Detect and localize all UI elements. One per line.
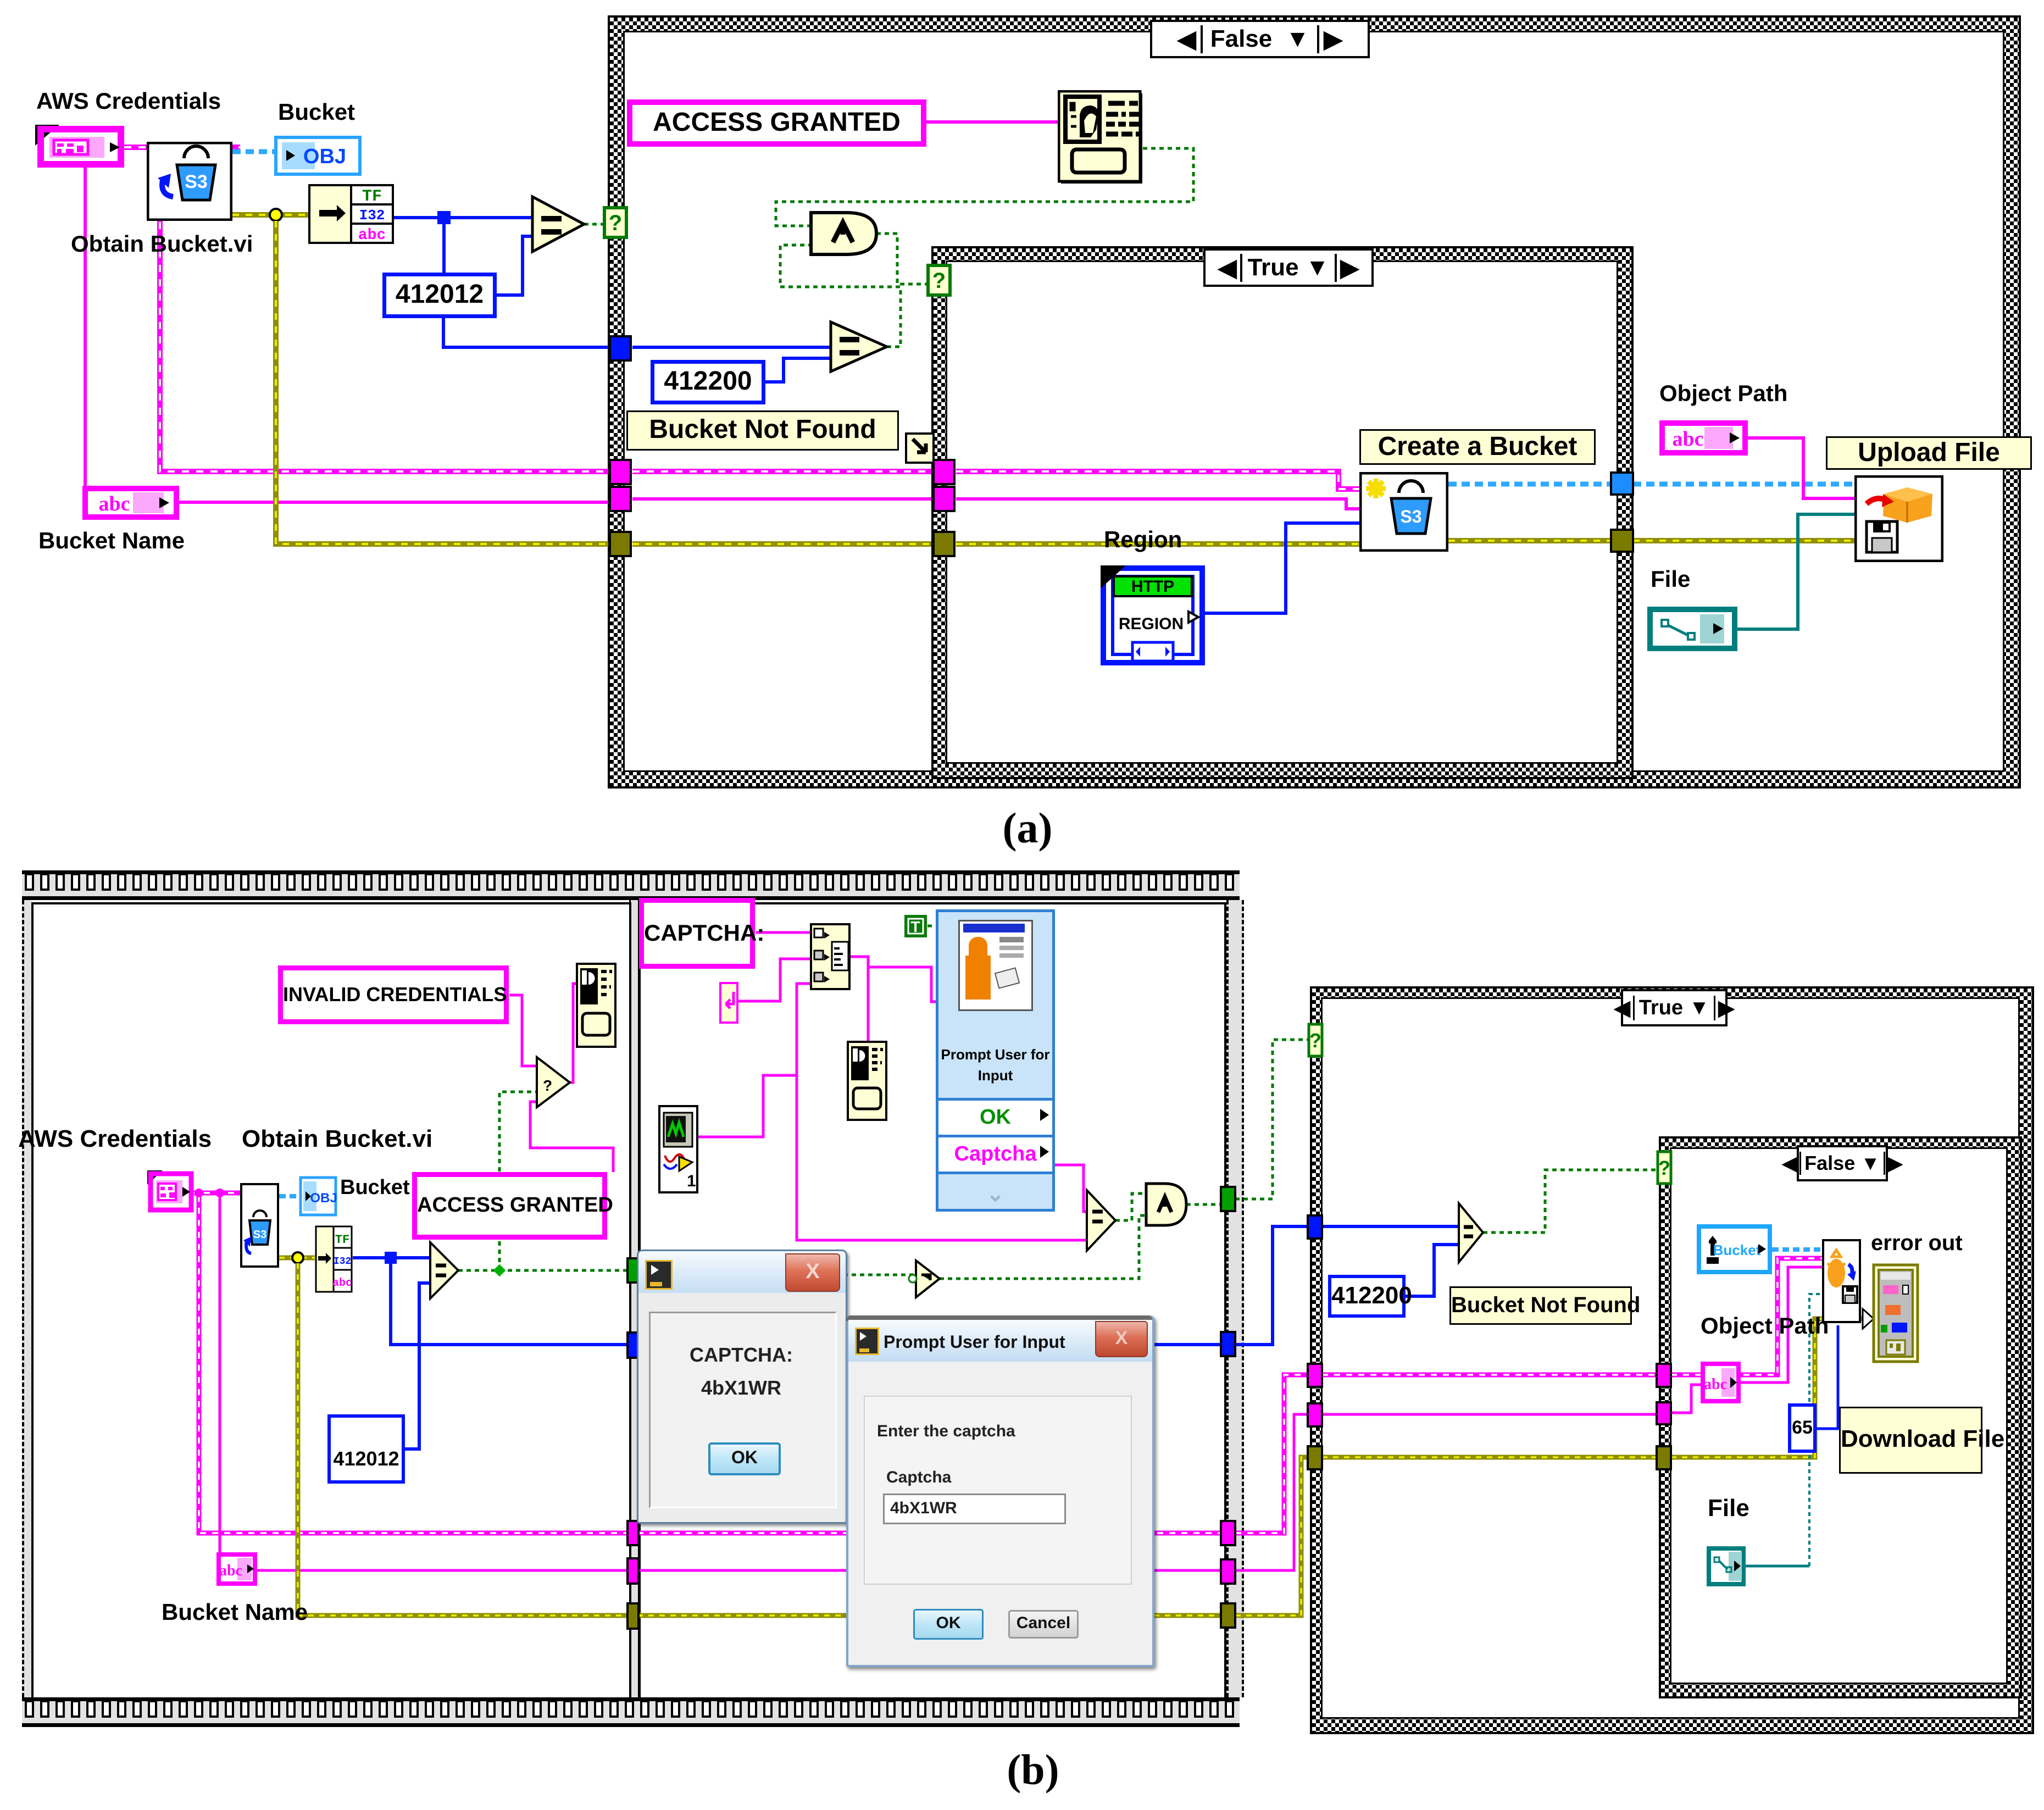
svg-text:abc: abc [1704, 1376, 1727, 1393]
wire pink captcha row out (b) [1055, 1165, 1087, 1212]
wire pink zigzag bucket name (a) [84, 166, 87, 486]
wire olive error (a) [232, 212, 308, 218]
svg-text:?: ? [543, 1077, 552, 1094]
flat sequence right edge [1226, 900, 1244, 1697]
node One Button Dialog icon (a) [1058, 90, 1143, 184]
constant 412200 (b True) [1328, 1275, 1406, 1318]
case structure False frame inner (b) [1659, 1136, 2022, 1698]
subVI Create Bucket icon (a) [1359, 472, 1448, 552]
wire teal File (b) [1746, 1565, 1809, 1568]
wire pink dashed AWS credentials (a) [85, 122, 1854, 629]
wire green AND out (b) [1186, 1203, 1222, 1206]
label Bucket Name (b) [162, 1599, 308, 1625]
wire blue I32 (a) [394, 216, 532, 219]
wire green tunnel to NOT (b) [637, 1274, 916, 1276]
svg-text:TF: TF [335, 1233, 349, 1247]
wire pink dashed inner False (b) [1671, 1258, 1822, 1375]
wire pink dashed inside True (b) [1322, 1373, 1658, 1378]
wire cyan refnum (b pane1) [279, 1194, 299, 1198]
express VI Prompt User for Input (b) [936, 909, 1055, 1212]
wire green film to True case (b) [1235, 1040, 1310, 1199]
control Region ring (a) [1101, 565, 1205, 665]
wire olive (b pane1) [279, 1256, 315, 1261]
selector label True (a inner) [1203, 248, 1374, 287]
label Bucket Name (a) [38, 528, 185, 554]
selector True (b) [1621, 989, 1728, 1026]
wire olive film to True (b) [1235, 1457, 1310, 1615]
wire blue inside True (b) [1322, 1225, 1459, 1228]
node equals compare (b True) [1459, 1203, 1483, 1262]
subVI Upload File icon (a) [1854, 475, 1943, 562]
label Object Path (a) [1659, 380, 1787, 407]
wire cyan Bucket to Download (b) [1772, 1247, 1822, 1252]
tunnel olive (a) [610, 532, 631, 556]
constant ACCESS GRANTED (b) [412, 1172, 607, 1240]
node equals compare #1 (a) [532, 197, 584, 252]
constant 412200 (a) [651, 360, 765, 404]
label Obtain Bucket.vi (a) [71, 231, 253, 257]
wire pink zigzag pane2 (b) [637, 1569, 1222, 1572]
wire olive through frames (a) [632, 541, 1359, 547]
wire pink zigzag film to True (b) [1235, 1414, 1310, 1570]
label AWS Credentials (a) [36, 88, 221, 114]
wire pink CAPTCHA to concat (b) [756, 931, 810, 934]
indicator Bucket OBJ refnum (a) [274, 136, 362, 176]
node One Button Dialog icon (b pane1) [576, 963, 616, 1048]
wire blue 65 (b) [1813, 1325, 1838, 1429]
wire green AND out to inner ? (a) [876, 234, 929, 284]
svg-text:I32: I32 [334, 1256, 351, 1267]
node captcha image generator (b) [658, 1105, 698, 1193]
wire olive inside True (b) [1322, 1455, 1658, 1460]
node equals compare #2 412200 (a) [831, 322, 887, 371]
constant Upload File (a) [1826, 436, 2032, 470]
wire pink zigzag inner False (b) [1671, 1385, 1701, 1413]
constant 412012 (a) [382, 273, 497, 318]
flat sequence frame divider [629, 900, 640, 1697]
dialog window CAPTCHA (b) [637, 1250, 847, 1524]
wire pink enter const to concat (b) [738, 959, 810, 1001]
cursor glyph (a) [905, 432, 935, 464]
node concatenate strings (b) [810, 923, 851, 990]
flat sequence structure (b): top film band [22, 870, 1240, 900]
control Bucket refnum (b inner False) [1697, 1224, 1772, 1274]
label Object Path (b) [1701, 1313, 1829, 1339]
wire pink zigzag bucket name (b) [219, 1196, 221, 1552]
node AND gate (b pane2) [1146, 1184, 1186, 1225]
wire pink zigzag inside True (b) [1322, 1413, 1658, 1416]
wire pink concat out (b) [851, 957, 868, 1041]
control AWS credentials cluster (b) [146, 1169, 196, 1214]
constant Create a Bucket (a) [1359, 429, 1596, 465]
control Bucket Name abc (a) [82, 486, 179, 520]
wire green compare (b pane1) [458, 1269, 628, 1272]
constant Bucket Not Found (b True) [1449, 1286, 1632, 1325]
tunnel pink dashed (a) [610, 460, 631, 484]
node equals compare captcha (b pane2) [1087, 1190, 1115, 1251]
tunnels pink pink olive inner-left (a) [934, 460, 954, 484]
selector False (b inner) [1797, 1145, 1888, 1181]
constant 412012 (b) [327, 1414, 405, 1484]
indicator Bucket OBJ (b) [299, 1176, 337, 1217]
wire pink zigzag ACCESS GRANTED (a) [926, 120, 1058, 124]
wire pink dashed pane2 (b) [637, 1531, 1222, 1536]
sequence pane 2 border [638, 902, 1226, 1700]
wire cyan create->upload (a) [1448, 482, 1854, 487]
wire olive inner False (b) [1671, 1319, 1822, 1457]
caption (a) [984, 803, 1071, 853]
wire pink M icon to concat and compare (b) [698, 984, 810, 1137]
node One Button Dialog icon (b pane2) [847, 1041, 887, 1121]
wire green NOT to AND (b) [940, 1215, 1146, 1279]
constant 65 (b) [1788, 1403, 1817, 1453]
wire blue film to True case (b) [1235, 1226, 1310, 1345]
control File path (b) [1707, 1546, 1746, 1586]
wire pink zigzag object path (a) [1748, 438, 1854, 498]
wire blue pane2 (b) [637, 1343, 1222, 1346]
wire pink dashed film to True (b) [1235, 1375, 1310, 1533]
wire teal file (a) [1737, 514, 1854, 629]
label Region (a) [1104, 526, 1182, 553]
wire pink INVALID to select (b) [510, 995, 537, 1066]
label File (a) [1651, 566, 1690, 592]
node unbundle TF I32 abc (a) [308, 184, 394, 244]
indicator error out cluster (b) [1872, 1263, 1919, 1363]
wire olive pane2 (b) [637, 1613, 1224, 1618]
wire green compare out (a) [584, 223, 604, 226]
wire pink select out to dialog (b) [570, 984, 576, 1082]
inner TRUE case frame (a) [931, 246, 1634, 779]
caption (b) [989, 1745, 1077, 1795]
node NOT gate (b pane2) [916, 1261, 940, 1297]
wire pink dashed through frames (a) [632, 471, 1359, 489]
wire cyan refnum chain (a) [232, 149, 274, 154]
tunnels on film right edge (b) [1221, 1187, 1235, 1211]
constant INVALID CREDENTIALS (b) [278, 965, 509, 1024]
label Obtain Bucket.vi (b) [242, 1125, 432, 1153]
tunnel green ? inner true (a) [928, 265, 950, 295]
wire pink zigzag through frames (a) [632, 499, 1359, 509]
wire green eq out inside True (b) [1483, 1170, 1659, 1232]
control Object Path abc (a) [1659, 420, 1748, 456]
tunnel blue inner-right (a) [1611, 473, 1633, 495]
dialog window Prompt User for Input (b) [846, 1315, 1154, 1667]
label Bucket (b) [340, 1176, 410, 1200]
subVI Download File icon (b) [1822, 1239, 1861, 1323]
sequence pane 1 border [31, 902, 631, 1700]
control File path (a) [1647, 607, 1737, 651]
node select (b pane1) [537, 1057, 570, 1107]
wire pink dashed AWS (b) [192, 1191, 240, 1196]
wire green eq to AND (b) [1115, 1193, 1146, 1220]
label Bucket (a) [278, 99, 355, 125]
constant Download File (b) [1839, 1407, 1982, 1474]
tunnels on True border (b) [1309, 1024, 1322, 1056]
case structure True frame (b) [1310, 986, 2034, 1734]
tunnel blue (a) [610, 336, 631, 360]
svg-text:1: 1 [687, 1172, 696, 1190]
wire green T const (b) [927, 925, 936, 928]
constant Bucket Not Found (a) [626, 410, 899, 451]
tunnels on inner False border (b) [1658, 1152, 1671, 1184]
control AWS Credentials cluster (a) [34, 124, 127, 169]
label File (b) [1708, 1495, 1749, 1522]
tunnels on divider (b) [627, 1258, 638, 1282]
node equals compare (b pane1) [430, 1242, 458, 1298]
flat sequence left edge [22, 900, 31, 1697]
constant True T (b) [904, 914, 927, 938]
wire blue region (a) [1205, 523, 1359, 613]
constant CAPTCHA: (b) [639, 898, 755, 969]
flat sequence structure (b): bottom film band [22, 1697, 1240, 1727]
wire green dialog to AND (a) [776, 148, 1193, 226]
svg-text:Bucket: Bucket [1713, 1242, 1761, 1258]
control Object Path abc (b) [1701, 1362, 1741, 1403]
selector label False (a) [1150, 20, 1370, 58]
svg-text:abc: abc [332, 1277, 352, 1290]
control Bucket Name abc (b) [216, 1552, 257, 1586]
label error out (b) [1871, 1231, 1963, 1256]
svg-text:abc: abc [219, 1562, 242, 1579]
wire olive create->upload (a) [1448, 538, 1854, 543]
node unbundle TF I32 abc (b) [315, 1225, 353, 1293]
wire blue I32 (b pane1) [353, 1256, 430, 1259]
node AND gate (a) [811, 213, 876, 254]
wire green eq2 to AND (a) [780, 245, 901, 347]
constant ACCESS GRANTED (a) [627, 99, 926, 147]
tunnel pink zigzag (a) [610, 487, 631, 511]
svg-text:T: T [910, 918, 920, 935]
wire blue 412200 compare (a) [632, 346, 831, 349]
subVI Obtain Bucket icon (b) [240, 1183, 279, 1268]
wire blue 412200 (b) [1406, 1245, 1459, 1296]
subVI Obtain Bucket.vi icon (a) [147, 142, 232, 221]
tunnel olive inner-right (a) [1611, 530, 1633, 552]
constant enter/linefeed (b) [719, 982, 738, 1024]
svg-text:OBJ: OBJ [310, 1191, 337, 1206]
svg-text:S3: S3 [253, 1229, 266, 1241]
wire pink ACCESS to select (b) [530, 1102, 613, 1172]
case structure FALSE frame (outer) [608, 15, 2021, 789]
label AWS Credentials (b) [18, 1125, 212, 1153]
